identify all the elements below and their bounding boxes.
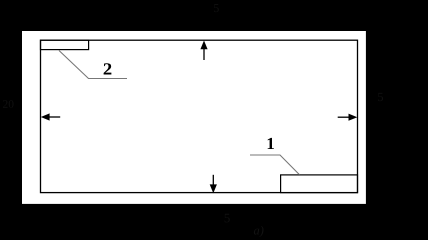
label 1 bbox=[268, 138, 274, 149]
arrow left bbox=[41, 113, 60, 120]
faint dimension 5 (right) bbox=[378, 93, 383, 101]
title block rectangle (item 1) bbox=[281, 175, 358, 193]
faint dimension 5 (bottom) bbox=[225, 214, 230, 223]
label 2 bbox=[104, 63, 112, 74]
leader line to label 2 bbox=[59, 51, 127, 79]
arrow bottom bbox=[210, 175, 217, 193]
sheet (white page) bbox=[22, 31, 366, 204]
faint dimension 20 (left) bbox=[3, 100, 14, 108]
frame border bbox=[41, 40, 358, 192]
faint dimension 5 (top) bbox=[214, 4, 219, 12]
leader line to label 1 bbox=[250, 155, 300, 175]
additional column rectangle (item 2) bbox=[41, 40, 89, 49]
arrow right bbox=[338, 114, 358, 121]
arrow top bbox=[200, 41, 207, 61]
faint figure label a) bbox=[254, 226, 264, 237]
